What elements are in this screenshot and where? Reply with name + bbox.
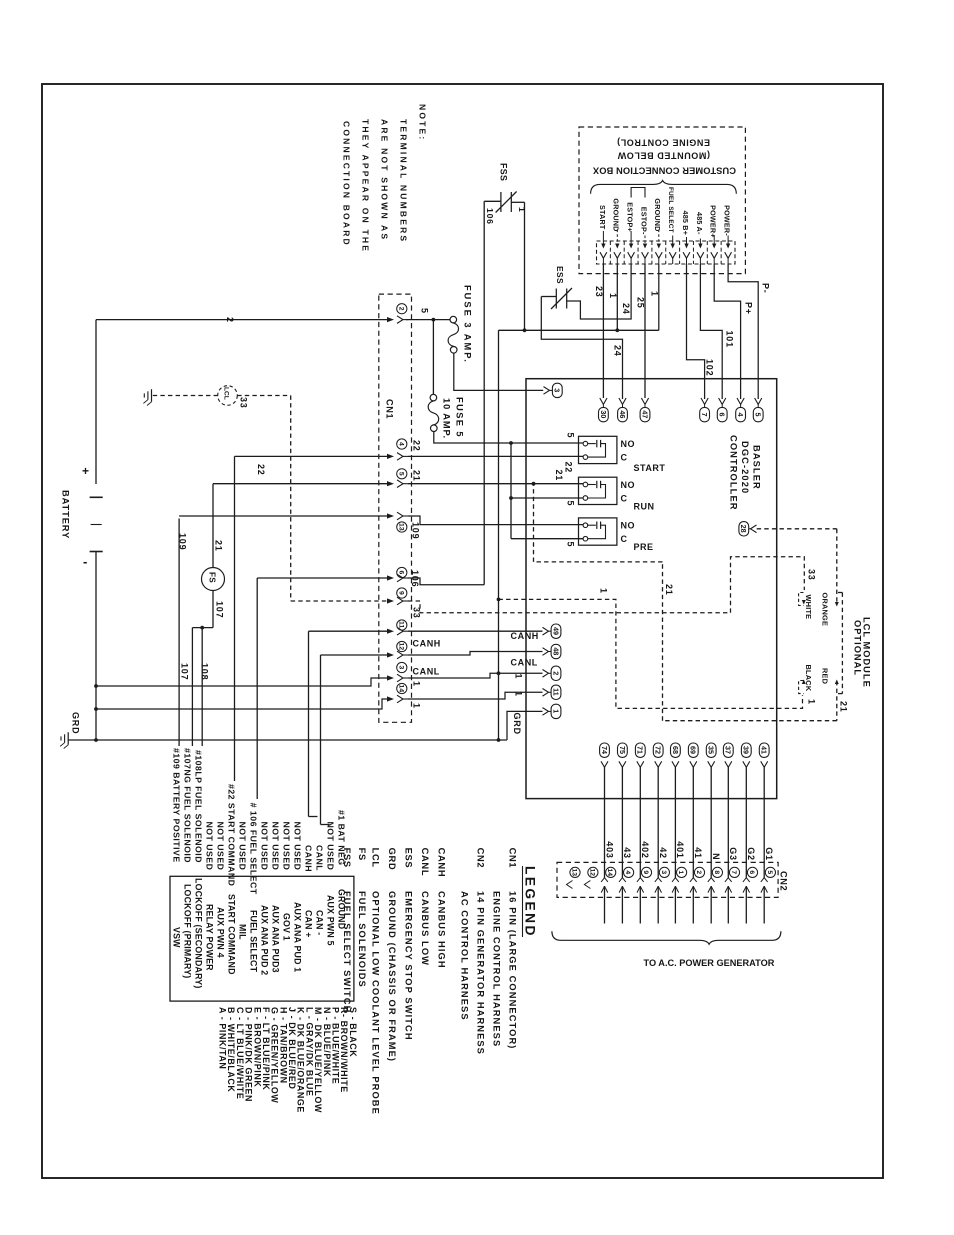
svg-text:21: 21 xyxy=(839,701,849,713)
svg-text:ENGINE CONTROL): ENGINE CONTROL) xyxy=(617,138,711,148)
svg-text:CAN +: CAN + xyxy=(304,910,314,938)
svg-text:G3: G3 xyxy=(728,847,738,861)
svg-text:CANH: CANH xyxy=(437,848,447,878)
svg-text:FUEL SOLENOIDS: FUEL SOLENOIDS xyxy=(357,891,367,988)
svg-text:CANBUS LOW: CANBUS LOW xyxy=(420,891,430,966)
svg-text:NO: NO xyxy=(621,480,636,490)
svg-text:RED: RED xyxy=(821,668,830,685)
wire ESS left to pin46 via 24 xyxy=(541,296,556,298)
connector CN2 pin 4 xyxy=(624,867,634,877)
controller pin 37 xyxy=(723,743,733,757)
svg-text:5: 5 xyxy=(566,433,576,439)
svg-text:OPTIONAL: OPTIONAL xyxy=(853,620,863,676)
svg-text:14 PIN GENERATOR HARNESS: 14 PIN GENERATOR HARNESS xyxy=(476,891,486,1055)
svg-text:8: 8 xyxy=(713,870,720,874)
svg-text:#1 BAT NEG: #1 BAT NEG xyxy=(337,810,347,866)
svg-text:10 AMP.: 10 AMP. xyxy=(442,398,452,439)
connector CN1 pin 5 xyxy=(387,481,394,486)
wire 402 to CN2 xyxy=(639,767,641,877)
wire N to CN2 xyxy=(710,767,712,877)
wire 5 from CN1 pin2 to fuses xyxy=(406,319,450,321)
svg-text:6: 6 xyxy=(718,413,727,417)
svg-text:35: 35 xyxy=(707,746,716,754)
wire 106 FSS left side xyxy=(484,200,501,202)
wire fuse3A output to pin3 xyxy=(454,353,543,390)
connector CN1 pin 11 xyxy=(387,629,394,634)
svg-text:NO: NO xyxy=(621,521,636,531)
svg-text:33: 33 xyxy=(807,569,817,581)
controller pin 4 xyxy=(737,398,744,404)
svg-text:5: 5 xyxy=(566,542,576,548)
svg-text:TERMINAL NUMBERS: TERMINAL NUMBERS xyxy=(399,119,409,243)
wire 101 485A- to pin6 xyxy=(700,264,722,399)
controller pin 71 xyxy=(635,743,645,757)
connector CN2 pin 7 xyxy=(729,867,739,877)
wire 401 to CN2 xyxy=(674,767,676,877)
terminal chevron col 6 xyxy=(669,252,676,258)
wire 23 START to pin30 xyxy=(602,264,604,398)
svg-text:GOV 1: GOV 1 xyxy=(282,913,292,941)
svg-text:41: 41 xyxy=(693,847,703,859)
svg-text:CANH: CANH xyxy=(304,845,314,872)
CN1 pinout table box xyxy=(170,876,354,1001)
controller pin 72 xyxy=(653,743,663,757)
wire 21 pin28 to LCL module xyxy=(757,528,837,530)
svg-text:FS: FS xyxy=(357,848,367,861)
svg-text:CANH: CANH xyxy=(413,639,441,649)
svg-text:102: 102 xyxy=(705,359,715,376)
svg-text:47: 47 xyxy=(640,410,649,418)
connector CN1 pin 9 xyxy=(387,598,394,603)
svg-text:GROUND: GROUND xyxy=(612,198,621,231)
svg-text:POWER-: POWER- xyxy=(723,205,732,236)
svg-text:11: 11 xyxy=(397,621,404,628)
wire 42 to CN2 xyxy=(657,767,659,877)
svg-text:1: 1 xyxy=(412,703,422,709)
svg-text:6: 6 xyxy=(397,571,404,575)
svg-text:2: 2 xyxy=(695,870,702,874)
svg-text:CANL: CANL xyxy=(413,667,440,677)
fuel solenoid driver FS xyxy=(202,568,225,591)
svg-text:37: 37 xyxy=(724,746,733,754)
terminal chevron col 7 xyxy=(683,252,690,258)
svg-text:1: 1 xyxy=(599,588,609,594)
svg-text:30: 30 xyxy=(599,410,608,418)
svg-text:LCL: LCL xyxy=(371,848,381,868)
brace for customer connection box xyxy=(591,181,737,194)
svg-text:2: 2 xyxy=(551,671,560,675)
svg-text:107: 107 xyxy=(215,601,225,618)
svg-text:TO A.C. POWER GENERATOR: TO A.C. POWER GENERATOR xyxy=(644,958,775,968)
svg-text:L - GRAY/DK BLUE: L - GRAY/DK BLUE xyxy=(304,1007,314,1096)
svg-text:CONNECTION BOARD: CONNECTION BOARD xyxy=(342,121,352,247)
svg-text:FSS: FSS xyxy=(499,163,509,181)
svg-text:NOTE:: NOTE: xyxy=(418,104,428,141)
svg-text:106: 106 xyxy=(485,208,495,225)
svg-text:33: 33 xyxy=(239,397,249,409)
connector CN2 pin 5 xyxy=(765,867,775,877)
svg-text:4: 4 xyxy=(736,413,745,417)
svg-text:LCL: LCL xyxy=(222,387,229,400)
connector CN2 pin 3 xyxy=(659,867,669,877)
svg-text:12: 12 xyxy=(397,643,404,651)
controller pin 1 xyxy=(543,708,549,716)
svg-text:# 106 FUEL SELECT: # 106 FUEL SELECT xyxy=(249,803,259,895)
svg-text:GROUND: GROUND xyxy=(337,889,347,929)
controller pin 69 xyxy=(688,743,698,757)
svg-text:485 A-: 485 A- xyxy=(695,212,704,235)
svg-text:RUN: RUN xyxy=(634,502,655,512)
svg-text:7: 7 xyxy=(700,413,709,417)
controller pin 49 xyxy=(543,627,549,635)
svg-text:#108LP FUEL SOLENOID: #108LP FUEL SOLENOID xyxy=(194,750,204,863)
svg-text:WHITE: WHITE xyxy=(804,595,813,620)
svg-text:CN1: CN1 xyxy=(385,399,395,419)
wire 102 485B+ to pin7 xyxy=(687,264,705,399)
svg-text:DGC-2020: DGC-2020 xyxy=(740,441,750,494)
svg-text:NOT USED: NOT USED xyxy=(293,822,303,871)
svg-text:PRE: PRE xyxy=(634,542,654,552)
connector CN1 pin 4 xyxy=(387,454,394,459)
switch START xyxy=(579,436,617,463)
connector CN2 pin 1 xyxy=(677,867,687,877)
connector CN2 pin 8 xyxy=(712,867,722,877)
wire G3 to CN2 xyxy=(727,767,729,877)
svg-text:3: 3 xyxy=(660,870,667,874)
low coolant probe LCL xyxy=(218,386,238,406)
svg-text:1: 1 xyxy=(807,699,817,705)
connector CN2 pin 2 xyxy=(694,867,704,877)
svg-text:5: 5 xyxy=(766,870,773,874)
svg-text:3: 3 xyxy=(397,666,404,670)
svg-text:C: C xyxy=(621,453,628,463)
svg-text:P - BLUE/WHITE: P - BLUE/WHITE xyxy=(331,1007,341,1084)
svg-text:FUSE 3 AMP.: FUSE 3 AMP. xyxy=(463,285,473,364)
wire 43 to CN2 xyxy=(621,767,623,877)
wire 1 GROUND-2 to ground rail xyxy=(658,264,660,330)
battery xyxy=(95,320,97,484)
switch PRE xyxy=(579,518,617,545)
wire 107 FS to solenoid xyxy=(212,591,214,628)
svg-text:K - DK BLUE/ORANGE: K - DK BLUE/ORANGE xyxy=(296,1007,306,1113)
controller pin 11 xyxy=(543,689,549,697)
svg-text:E - BROWN/PINK: E - BROWN/PINK xyxy=(252,1007,262,1087)
svg-text:H - TAN/BROWN: H - TAN/BROWN xyxy=(278,1007,288,1084)
svg-text:2: 2 xyxy=(225,317,235,323)
svg-text:EMERGENCY STOP SWITCH: EMERGENCY STOP SWITCH xyxy=(404,891,414,1041)
wire 1 CN1 pin3 to pin2 oval xyxy=(408,673,543,678)
wires CN2 to generator xyxy=(604,886,606,923)
svg-text:FUSE 5: FUSE 5 xyxy=(455,397,465,438)
wire 109 CN1 pin13 to PRE NO xyxy=(179,515,388,517)
svg-text:FUEL SELECT: FUEL SELECT xyxy=(667,187,674,233)
svg-text:AUX PWN 4: AUX PWN 4 xyxy=(216,907,226,958)
jumper bracket ESTOP+ to ESTOP- xyxy=(631,188,645,198)
terminal chevron col 5 xyxy=(655,252,662,258)
svg-text:P-: P- xyxy=(761,283,771,294)
wire 1 CN1 pin14 to pin11 oval xyxy=(408,692,543,699)
svg-text:22: 22 xyxy=(412,440,422,452)
terminal chevron col 2 xyxy=(614,252,621,258)
svg-text:RELAY POWER: RELAY POWER xyxy=(205,904,215,971)
svg-text:N - BLUE/PINK: N - BLUE/PINK xyxy=(322,1007,332,1077)
ground at LCL xyxy=(151,389,153,402)
svg-text:POWER+: POWER+ xyxy=(709,205,718,238)
connector CN2 pin 14 xyxy=(606,867,616,877)
customer connection box outline xyxy=(579,127,745,274)
svg-text:LOCKOFF (SECONDARY): LOCKOFF (SECONDARY) xyxy=(194,878,204,989)
svg-text:5: 5 xyxy=(566,501,576,507)
brace to AC power generator xyxy=(552,931,781,944)
svg-text:23: 23 xyxy=(594,286,604,298)
svg-text:2: 2 xyxy=(397,307,404,311)
svg-text:ORANGE: ORANGE xyxy=(821,593,830,627)
border frame xyxy=(42,84,883,1178)
controller pin 68 xyxy=(671,743,681,757)
ground rail wire xyxy=(499,329,659,331)
svg-text:4: 4 xyxy=(397,442,404,446)
wire LCL to ground xyxy=(153,395,219,397)
controller pin 28 xyxy=(739,522,749,536)
svg-text:G - GREEN/YELLOW: G - GREEN/YELLOW xyxy=(270,1007,280,1103)
svg-text:-: - xyxy=(83,554,87,569)
terminal chevron col 1 xyxy=(600,252,607,258)
svg-text:1: 1 xyxy=(517,207,527,213)
wire 2 battery+ to CN1 pin2 xyxy=(96,319,388,321)
svg-text:NOT USED: NOT USED xyxy=(238,822,248,871)
svg-text:14: 14 xyxy=(606,868,613,876)
svg-text:39: 39 xyxy=(742,746,751,754)
svg-text:401: 401 xyxy=(675,841,685,858)
svg-text:1: 1 xyxy=(412,681,422,687)
svg-text:13: 13 xyxy=(397,523,404,531)
wire 403 to CN2 xyxy=(604,767,606,877)
svg-text:NO: NO xyxy=(621,439,636,449)
controller pin 75 xyxy=(618,743,628,757)
svg-text:1: 1 xyxy=(608,293,618,299)
svg-text:S - BLACK: S - BLACK xyxy=(348,1007,358,1057)
connector CN2 spare pins 13 12 xyxy=(570,867,580,877)
svg-text:BLACK: BLACK xyxy=(804,665,813,692)
svg-text:#22 START COMMAND: #22 START COMMAND xyxy=(227,784,237,886)
svg-text:AUX ANA PUD 1: AUX ANA PUD 1 xyxy=(293,902,303,972)
terminal chevron col 3 xyxy=(628,252,635,258)
wire 1 GROUND-1 to ground rail xyxy=(616,264,618,330)
terminal chevron col 9 xyxy=(711,252,718,258)
svg-text:CN2: CN2 xyxy=(779,871,789,891)
switch ESS xyxy=(555,289,557,309)
terminal strip of customer connection box xyxy=(597,241,736,264)
controller pin 5 xyxy=(755,398,762,404)
connector CN2 pin 6 xyxy=(747,867,757,877)
wire 21 FS to CN1 pin5 xyxy=(212,484,214,568)
connector CN1 pin 3 xyxy=(387,675,394,680)
svg-text:1: 1 xyxy=(650,291,660,297)
wire 1 ground to LCL module xyxy=(499,599,803,708)
svg-text:LEGEND: LEGEND xyxy=(523,866,538,938)
wire 21 CN1 pin5 to RUN NO xyxy=(213,483,388,485)
svg-text:NOT USED: NOT USED xyxy=(216,822,226,871)
svg-text:9: 9 xyxy=(642,870,649,874)
svg-text:72: 72 xyxy=(654,746,663,754)
svg-text:(MOUNTED BELOW: (MOUNTED BELOW xyxy=(617,151,710,161)
wire 1 FSS right side to ground rail xyxy=(511,201,524,203)
wire 41 to CN2 xyxy=(692,767,694,877)
svg-text:NOT USED: NOT USED xyxy=(271,822,281,871)
svg-text:GROUND (CHASSIS OR FRAME): GROUND (CHASSIS OR FRAME) xyxy=(387,891,397,1062)
svg-text:22: 22 xyxy=(256,464,266,476)
svg-text:16 PIN (LARGE CONNECTOR): 16 PIN (LARGE CONNECTOR) xyxy=(508,891,518,1049)
svg-text:21: 21 xyxy=(554,470,564,482)
switch FSS xyxy=(500,192,502,212)
svg-text:71: 71 xyxy=(636,746,645,754)
svg-text:LCL MODULE: LCL MODULE xyxy=(862,617,872,688)
svg-text:LOCKOFF (PRIMARY): LOCKOFF (PRIMARY) xyxy=(183,884,193,978)
svg-text:13: 13 xyxy=(571,868,578,876)
svg-text:69: 69 xyxy=(689,746,698,754)
wire P+ POWER+ to pin4 xyxy=(714,264,740,399)
svg-text:21: 21 xyxy=(214,540,224,552)
ground GRD xyxy=(67,732,69,745)
svg-text:5: 5 xyxy=(420,308,430,314)
controller box BASLER DGC-2020 xyxy=(526,379,777,799)
svg-text:5: 5 xyxy=(397,472,404,476)
wire 25 ESTOP- to pin47 xyxy=(644,264,646,398)
svg-text:41: 41 xyxy=(760,746,769,754)
svg-text:5: 5 xyxy=(754,413,763,417)
svg-text:CANL: CANL xyxy=(420,848,430,877)
connector CN2 pin 9 xyxy=(641,867,651,877)
connector CN1 outline xyxy=(379,294,412,722)
controller pin 7 xyxy=(701,398,708,404)
connector CN2 outline xyxy=(557,862,778,897)
terminal chevron col 4 xyxy=(642,252,649,258)
svg-text:12: 12 xyxy=(588,868,595,876)
svg-text:START: START xyxy=(598,205,607,230)
svg-text:B - WHITE/BLACK: B - WHITE/BLACK xyxy=(226,1007,236,1092)
svg-text:#109 BATTERY POSITIVE: #109 BATTERY POSITIVE xyxy=(172,748,182,863)
svg-text:CANH: CANH xyxy=(511,631,539,641)
svg-text:46: 46 xyxy=(618,410,627,418)
svg-text:CANL: CANL xyxy=(511,658,538,668)
svg-text:THEY APPEAR ON THE: THEY APPEAR ON THE xyxy=(361,119,371,253)
svg-text:22: 22 xyxy=(564,462,574,474)
svg-text:ENGINE CONTROL HARNESS: ENGINE CONTROL HARNESS xyxy=(492,891,502,1047)
svg-text:J - DK BLUE/RED: J - DK BLUE/RED xyxy=(287,1007,297,1089)
svg-text:AUX ANA PUD3: AUX ANA PUD3 xyxy=(271,905,281,973)
terminal chevron col 10 xyxy=(725,252,732,258)
svg-text:6: 6 xyxy=(748,870,755,874)
svg-text:GROUND: GROUND xyxy=(653,198,662,231)
svg-text:4: 4 xyxy=(624,870,631,874)
controller pin 3 xyxy=(544,387,550,395)
svg-text:11: 11 xyxy=(551,688,560,696)
svg-text:OPTIONAL LOW COOLANT LEVEL PRO: OPTIONAL LOW COOLANT LEVEL PROBE xyxy=(371,891,381,1115)
controller pin 30 xyxy=(600,398,607,404)
svg-text:M - DK BLUE/YELLOW: M - DK BLUE/YELLOW xyxy=(313,1007,323,1113)
svg-text:G2: G2 xyxy=(746,847,756,861)
svg-text:FUEL SELECT: FUEL SELECT xyxy=(249,910,259,973)
wire CANL CN1 pin12 xyxy=(321,654,389,656)
svg-text:BASLER: BASLER xyxy=(752,445,762,490)
svg-text:42: 42 xyxy=(658,847,668,859)
wire 106 CN1 pin6 to FSS xyxy=(257,577,388,579)
svg-text:N: N xyxy=(711,853,721,860)
svg-text:1: 1 xyxy=(677,870,684,874)
svg-text:NOT USED: NOT USED xyxy=(282,822,292,871)
svg-text:C - LT BLUE/WHITE: C - LT BLUE/WHITE xyxy=(235,1007,245,1099)
svg-text:1: 1 xyxy=(551,709,560,713)
svg-text:CUSTOMER CONNECTION BOX: CUSTOMER CONNECTION BOX xyxy=(592,166,736,176)
wire 5 to RUN C and PRE C xyxy=(510,443,512,539)
svg-text:F - LT BLUE/PINK: F - LT BLUE/PINK xyxy=(261,1007,271,1090)
svg-text:GRD: GRD xyxy=(387,848,397,871)
svg-text:75: 75 xyxy=(618,746,627,754)
svg-text:D - PINK/DK GREEN: D - PINK/DK GREEN xyxy=(244,1007,254,1102)
svg-text:402: 402 xyxy=(640,841,650,858)
controller pin 48 xyxy=(543,648,549,656)
switch RUN xyxy=(579,477,617,504)
svg-text:CANBUS HIGH: CANBUS HIGH xyxy=(437,891,447,969)
svg-text:24: 24 xyxy=(613,345,623,357)
svg-text:25: 25 xyxy=(636,297,646,309)
wire 33 LCL to CN1 pin9 xyxy=(237,395,291,397)
svg-text:74: 74 xyxy=(600,746,609,754)
wire 1 battery- to CN1 pin3 xyxy=(94,684,98,688)
svg-text:AC CONTROL HARNESS: AC CONTROL HARNESS xyxy=(460,891,470,1021)
svg-text:28: 28 xyxy=(739,525,748,533)
svg-text:403: 403 xyxy=(604,841,614,858)
svg-text:ESTOP+: ESTOP+ xyxy=(626,202,635,232)
svg-text:BATTERY: BATTERY xyxy=(61,490,71,539)
controller pin 41 xyxy=(759,743,769,757)
svg-text:NOT USED: NOT USED xyxy=(260,822,270,871)
svg-text:C: C xyxy=(621,534,628,544)
svg-text:CAN -: CAN - xyxy=(315,910,325,935)
svg-text:CN1: CN1 xyxy=(508,848,518,869)
wire 22 CN1 pin4 to START C xyxy=(235,455,389,457)
svg-text:1: 1 xyxy=(514,674,524,680)
controller pin 46 xyxy=(619,398,626,404)
svg-text:MIL: MIL xyxy=(238,924,248,940)
svg-text:108: 108 xyxy=(200,663,210,680)
svg-text:68: 68 xyxy=(671,746,680,754)
controller pin 6 xyxy=(719,398,726,404)
wire G1 to CN2 xyxy=(763,767,765,877)
wire 24 ESTOP+ to ESS switch xyxy=(567,264,631,319)
svg-text:49: 49 xyxy=(551,627,560,635)
optional LCL module box xyxy=(841,593,843,694)
connector CN1 pin 14 xyxy=(387,696,394,701)
svg-text:START COMMAND: START COMMAND xyxy=(227,894,237,975)
svg-text:48: 48 xyxy=(551,647,560,655)
svg-text:ESTOP-: ESTOP- xyxy=(639,207,648,235)
svg-text:GRD: GRD xyxy=(71,712,81,734)
wire P- POWER- to pin5 xyxy=(728,264,758,399)
svg-text:NOT USED: NOT USED xyxy=(326,822,336,871)
controller pin 35 xyxy=(706,743,716,757)
svg-text:9: 9 xyxy=(397,591,404,595)
svg-text:P+: P+ xyxy=(744,302,754,315)
controller pin 2 xyxy=(543,670,549,678)
svg-text:FS: FS xyxy=(207,572,216,583)
svg-text:43: 43 xyxy=(622,847,632,859)
wire 5 fuse10A output to switches xyxy=(434,432,583,444)
svg-text:ESS: ESS xyxy=(404,848,414,869)
svg-text:R- BROWN/WHITE: R- BROWN/WHITE xyxy=(339,1007,349,1093)
svg-text:#107NG FUEL SOLENOID: #107NG FUEL SOLENOID xyxy=(183,748,193,863)
controller pin 39 xyxy=(741,743,751,757)
